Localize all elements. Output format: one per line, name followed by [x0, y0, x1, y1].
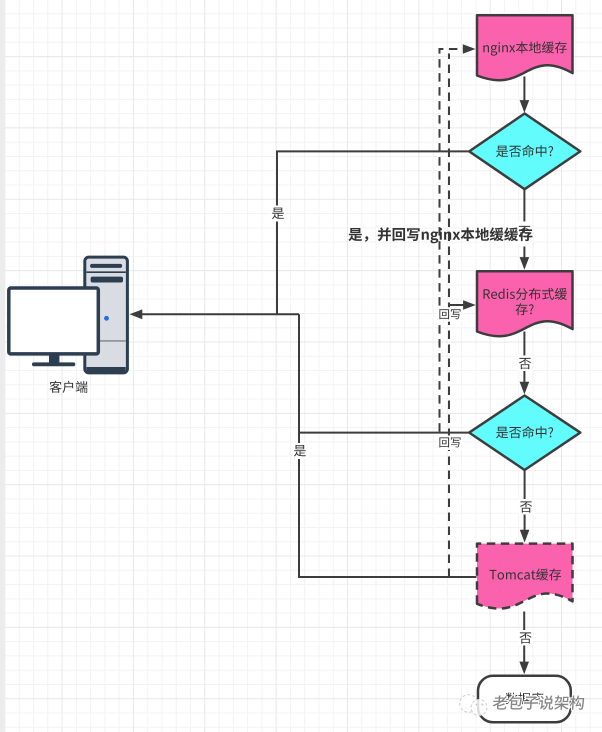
icon: client monitor and stand [9, 288, 99, 366]
label: Tomcat cache text [490, 569, 562, 581]
wire: short write-back arrow into Redis cache [449, 300, 476, 310]
wire: diamond1 no-branch to Redis cache with arrowhead [520, 189, 530, 270]
label: diamond2 text [496, 426, 553, 438]
label: database terminator text [505, 693, 543, 705]
wire: vertical trunk x=299 and branch to Tomcat cache (y=577) [299, 314, 477, 577]
label: yes (trunk branch) [293, 443, 308, 459]
shape: nginx local cache document [477, 15, 573, 80]
shape: Tomcat cache document (dashed) [477, 544, 573, 609]
label: no (diamond1 to Redis) [517, 222, 533, 247]
shape: diamond1 hit-test [469, 114, 580, 190]
label: nginx local cache text [483, 41, 567, 55]
label: bold annotation yes-writeback-nginx [348, 227, 532, 243]
wire: dashed write-back riser to nginx cache (x=439.5) with arrowhead at top [440, 44, 476, 431]
label: Redis cache text line1 [484, 288, 568, 300]
label: no (diamond2 to Tomcat) [519, 499, 534, 515]
label: client [50, 381, 88, 393]
wire: diamond1 yes-branch to client bus (horizontal y=151 then down x=277) [277, 151, 469, 314]
wire: dashed write-back riser from Tomcat (x=449) [448, 54, 450, 578]
wire: diamond2 no-branch to Tomcat cache with arrowhead [520, 470, 530, 543]
icon: client computer tower [85, 257, 128, 373]
shape: Redis distributed cache document [477, 271, 573, 336]
wire: bus to client with arrowhead (horizontal y=314) [130, 309, 300, 319]
label: Redis cache text line2 [516, 303, 534, 315]
shape: diamond2 hit-test [469, 396, 580, 471]
wire: nginx cache to diamond1 with arrowhead [520, 77, 530, 113]
watermark: text [492, 695, 584, 709]
label: write-back near diamond2 [438, 436, 463, 451]
label: diamond1 text [496, 145, 553, 157]
label: no (Redis to diamond2) [518, 356, 533, 372]
wire: diamond2 yes-branch (horizontal y=432.6) [299, 432, 469, 434]
wire: Redis cache to diamond2 with arrowhead [520, 332, 530, 395]
shape: database terminator (rounded) [478, 676, 571, 722]
label: write-back near Redis arrow [438, 307, 463, 322]
label: no (Tomcat to database) [518, 630, 533, 646]
label: yes (diamond1 branch) [271, 206, 286, 222]
watermark: sketch icon [460, 695, 487, 716]
wire: Tomcat cache to database terminator with arrowhead [519, 612, 529, 675]
